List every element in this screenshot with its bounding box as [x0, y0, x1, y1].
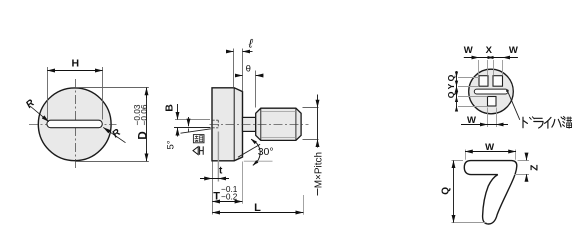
bottom square hole: [488, 97, 497, 107]
svg-text:Z: Z: [529, 165, 540, 171]
dimension theta (neck length): [255, 71, 257, 108]
all-around symbol: [193, 147, 198, 155]
dimension M x Pitch (thread size): [303, 108, 319, 140]
dimension T with tolerance: [242, 162, 244, 204]
dimension D (vertical, cyan label with tolerance): [146, 88, 148, 98]
svg-text:B: B: [164, 104, 176, 112]
dimension W X W line: [464, 57, 518, 59]
svg-text:W: W: [464, 45, 473, 56]
D extension line bottom: [76, 161, 149, 163]
driver view circle: [469, 69, 514, 114]
Q extension lines: [452, 161, 487, 223]
D extension line top: [76, 87, 149, 89]
knurl taper boundary line: [233, 88, 235, 161]
dimension H: [47, 70, 49, 72]
leader dot: [506, 90, 509, 93]
5 degree leader arrow: [188, 117, 190, 126]
leader R (upper left): [30, 106, 49, 122]
dimension B (slot width): [175, 119, 210, 121]
svg-text:R: R: [110, 127, 123, 141]
svg-text:30°: 30°: [258, 146, 274, 158]
svg-text:θ: θ: [246, 63, 251, 74]
right square hole: [493, 76, 503, 87]
slot: [47, 120, 102, 128]
dimension W (top of 7): [465, 151, 467, 153]
svg-text:X: X: [486, 45, 493, 56]
axis centerline: [210, 123, 309, 125]
W extension lines (top): [466, 150, 516, 160]
Q Y Q extension lines: [458, 78, 488, 107]
text: driver groove (katakana): [523, 116, 572, 128]
svg-text:W: W: [467, 115, 476, 126]
neck: [243, 117, 256, 131]
dimension Z: [526, 154, 528, 160]
svg-text:W: W: [509, 45, 518, 56]
bottom W extension lines: [488, 108, 497, 128]
leader R (lower right): [103, 127, 125, 142]
leader line to driver groove label: [507, 91, 519, 120]
hidden slot lines in head: [212, 120, 218, 128]
head side outline: [212, 88, 243, 161]
svg-text:T: T: [213, 190, 220, 202]
svg-text:5°: 5°: [165, 140, 176, 149]
centerline horizontal: [29, 123, 117, 125]
chamfer boundary lines: [261, 108, 296, 140]
slot across: [474, 89, 508, 94]
thread root lines: [261, 111, 296, 137]
30 degree chamfer angle callout: [238, 144, 260, 157]
W X W extension lines: [479, 60, 503, 76]
centerline vertical: [74, 79, 76, 171]
svg-text:D: D: [137, 131, 149, 139]
H extension lines: [48, 67, 103, 120]
threaded cylinder: [256, 108, 301, 140]
5 degree taper angle line: [181, 129, 211, 133]
svg-text:Q: Q: [440, 187, 451, 195]
svg-text:W: W: [485, 142, 494, 153]
svg-text:R: R: [24, 97, 37, 111]
dimension l (script ell): [234, 49, 243, 92]
left square hole: [479, 76, 488, 87]
svg-text:ℓ: ℓ: [249, 36, 254, 50]
svg-text:H: H: [72, 58, 80, 70]
dimension L (overall length): [303, 195, 305, 215]
dimension t (slot depth): [212, 162, 214, 215]
svg-text:M×Pitch: M×Pitch: [314, 152, 325, 188]
svg-text:−0.2: −0.2: [221, 192, 238, 202]
dimension Q (height of 7): [453, 161, 455, 163]
head circle: [38, 88, 111, 161]
svg-text:Q Y Q: Q Y Q: [446, 74, 456, 98]
svg-text:t: t: [219, 166, 223, 177]
knurl spec box: [193, 135, 204, 143]
dimension Q Y Q line: [456, 71, 458, 111]
7-shaped profile: [464, 161, 517, 224]
Z extension lines: [514, 161, 529, 175]
svg-text:−0.06: −0.06: [139, 104, 149, 125]
svg-text:L: L: [254, 202, 261, 214]
dimension W bottom: [461, 124, 508, 126]
